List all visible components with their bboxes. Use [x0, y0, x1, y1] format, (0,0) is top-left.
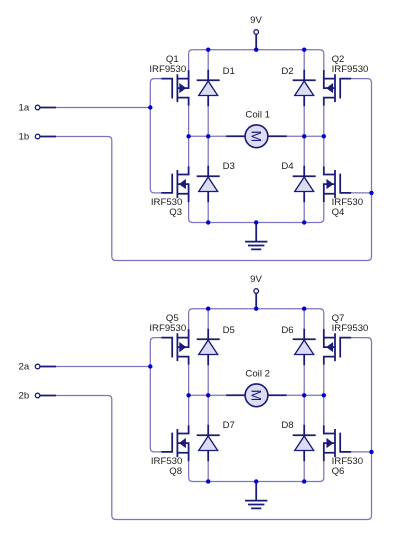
junction left bridge output — [186, 393, 190, 397]
wire: node to lower-left gate — [150, 108, 172, 193]
junction D7 / ground rail — [206, 479, 210, 483]
svg-text:9V: 9V — [250, 274, 262, 285]
diode D8 — [294, 426, 315, 461]
wire: ground bottom rail — [189, 453, 324, 482]
diode D1 — [198, 71, 219, 106]
svg-text:M: M — [249, 130, 265, 142]
svg-text:D4: D4 — [281, 161, 294, 172]
motor Coil 2 — [227, 384, 286, 407]
svg-text:D7: D7 — [223, 420, 235, 431]
wire: input 2b loop to right gates — [40, 338, 372, 520]
diode D2 — [294, 71, 315, 106]
transistor Q7 (IRF9530 P-MOSFET) — [324, 330, 350, 364]
svg-text:M: M — [249, 389, 265, 401]
junction D8 / ground rail — [302, 479, 306, 483]
input terminal 2a — [35, 364, 55, 369]
junction left bridge output — [186, 134, 190, 138]
transistor Q6 (IRF530 N-MOSFET) — [324, 426, 350, 460]
svg-text:1a: 1a — [19, 103, 30, 114]
wire: V+ top rail (circuit 2) — [189, 309, 324, 338]
power terminal 9V — [254, 30, 259, 49]
junction input 2a gates node — [148, 364, 152, 368]
wire: input 2a to left gates node — [40, 366, 150, 368]
svg-text:2b: 2b — [19, 391, 30, 402]
wire: right bridge leg — [323, 357, 325, 434]
diode D7 — [198, 426, 219, 461]
svg-text:IRF9530: IRF9530 — [149, 323, 186, 334]
ground — [246, 223, 267, 250]
ground — [246, 482, 267, 509]
wire: node to upper-left gate — [150, 79, 172, 108]
wire: V+ top rail (circuit 1) — [189, 50, 324, 79]
transistor Q2 (IRF9530 P-MOSFET) — [324, 71, 350, 105]
svg-text:D2: D2 — [281, 66, 293, 77]
wire: D6/D8 diode column — [303, 309, 305, 482]
junction right bridge output — [322, 134, 326, 138]
transistor Q1 (IRF9530 P-MOSFET) — [162, 71, 188, 105]
wire: node to lower-left gate — [150, 367, 172, 452]
junction D6 / V+ rail — [302, 307, 306, 311]
svg-text:Q6: Q6 — [332, 466, 345, 477]
wire: coil left lead wire — [189, 394, 245, 396]
junction 9V / V+ rail — [254, 307, 258, 311]
wire: coil left lead wire — [189, 135, 245, 137]
svg-text:D8: D8 — [281, 420, 293, 431]
input terminal 1a — [35, 105, 55, 110]
junction 9V / V+ rail — [254, 48, 258, 52]
junction D3 / ground rail — [206, 220, 210, 224]
junction input 2b gates node — [369, 450, 373, 454]
junction D6/D8 mid — [302, 393, 306, 397]
svg-text:Q8: Q8 — [169, 466, 182, 477]
input terminal 2b — [35, 393, 55, 398]
wire: left bridge leg — [188, 357, 190, 434]
wire: ground bottom rail — [189, 194, 324, 223]
wire: input 1b loop to right gates — [40, 79, 372, 261]
wire: input 1a to left gates node — [40, 107, 150, 109]
junction ground rail — [254, 220, 258, 224]
motor Coil 1 — [227, 125, 286, 148]
svg-text:D1: D1 — [223, 66, 235, 77]
svg-text:IRF9530: IRF9530 — [149, 64, 186, 75]
svg-text:IRF9530: IRF9530 — [332, 323, 369, 334]
svg-text:2a: 2a — [19, 362, 30, 373]
transistor Q8 (IRF530 N-MOSFET) — [162, 426, 188, 460]
wire: right node to lower-right gate — [340, 192, 371, 194]
svg-text:D3: D3 — [223, 161, 235, 172]
svg-text:IRF9530: IRF9530 — [332, 64, 369, 75]
junction D2/D4 mid — [302, 134, 306, 138]
diode D6 — [294, 330, 315, 365]
junction D2 / V+ rail — [302, 48, 306, 52]
wire: coil right lead wire — [268, 394, 324, 396]
junction D1/D3 mid — [206, 134, 210, 138]
wire: coil right lead wire — [268, 135, 324, 137]
transistor Q3 (IRF530 N-MOSFET) — [162, 167, 188, 201]
junction input 1b gates node — [369, 191, 373, 195]
svg-text:Coil 2: Coil 2 — [245, 369, 270, 380]
junction D1 / V+ rail — [206, 48, 210, 52]
input terminal 1b — [35, 134, 55, 139]
junction input 1a gates node — [148, 105, 152, 109]
wire: node to upper-left gate — [150, 338, 172, 367]
svg-text:9V: 9V — [250, 15, 262, 26]
svg-text:Coil 1: Coil 1 — [245, 110, 270, 121]
wire: D1/D3 diode column — [207, 50, 209, 223]
junction ground rail — [254, 479, 258, 483]
svg-text:Q3: Q3 — [169, 207, 182, 218]
wire: D5/D7 diode column — [207, 309, 209, 482]
power terminal 9V — [254, 289, 259, 308]
junction right bridge output — [322, 393, 326, 397]
svg-text:1b: 1b — [19, 132, 30, 143]
svg-text:D6: D6 — [281, 325, 293, 336]
diode D5 — [198, 330, 219, 365]
wire: right bridge leg — [323, 98, 325, 175]
svg-text:Q4: Q4 — [332, 207, 345, 218]
junction D5 / V+ rail — [206, 307, 210, 311]
svg-text:D5: D5 — [223, 325, 235, 336]
transistor Q5 (IRF9530 P-MOSFET) — [162, 330, 188, 364]
junction D5/D7 mid — [206, 393, 210, 397]
wire: left bridge leg — [188, 98, 190, 175]
diode D3 — [198, 167, 219, 202]
wire: right node to lower-right gate — [340, 451, 371, 453]
transistor Q4 (IRF530 N-MOSFET) — [324, 167, 350, 201]
wire: D2/D4 diode column — [303, 50, 305, 223]
junction D4 / ground rail — [302, 220, 306, 224]
diode D4 — [294, 167, 315, 202]
